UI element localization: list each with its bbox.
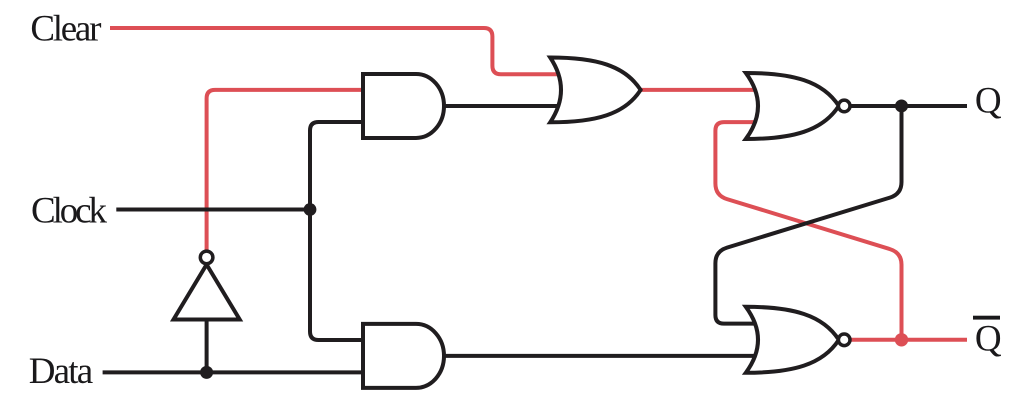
svg-text:Q: Q bbox=[975, 80, 1002, 121]
svg-text:Q: Q bbox=[975, 318, 1002, 359]
svg-text:Data: Data bbox=[29, 351, 94, 392]
svg-text:Clear: Clear bbox=[30, 9, 101, 50]
svg-text:Clock: Clock bbox=[31, 190, 108, 231]
